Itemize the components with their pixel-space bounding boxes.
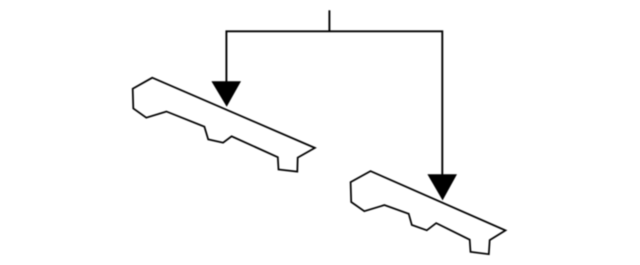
arrowhead right (427, 174, 457, 200)
wire stem top (328, 10, 330, 31)
arrowhead left (211, 81, 241, 107)
part outline right (351, 171, 506, 254)
wire bracket (226, 31, 442, 175)
part outline left (133, 78, 315, 172)
